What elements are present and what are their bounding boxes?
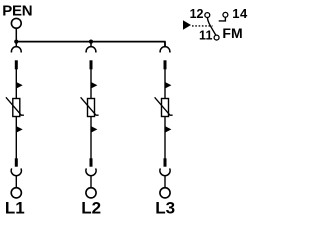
svg-text:11: 11	[199, 29, 213, 43]
svg-text:L3: L3	[155, 198, 175, 216]
svg-text:12: 12	[190, 7, 204, 21]
svg-text:FM: FM	[222, 25, 242, 41]
svg-text:PEN: PEN	[2, 2, 32, 19]
svg-text:L1: L1	[5, 198, 25, 216]
svg-text:14: 14	[232, 6, 248, 21]
svg-text:L2: L2	[81, 198, 101, 216]
